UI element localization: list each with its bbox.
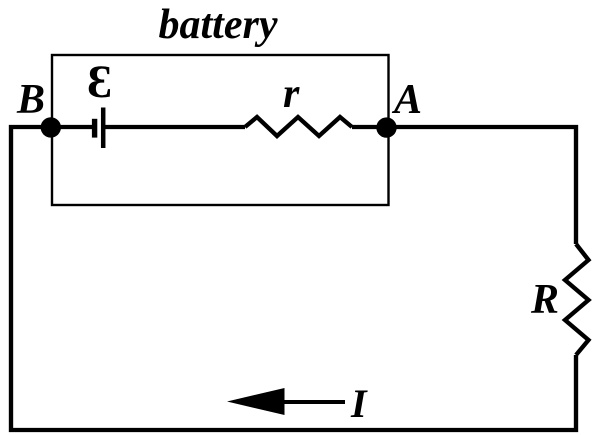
- current arrowhead: [227, 388, 285, 415]
- battery negative plate (short): [92, 119, 97, 138]
- svg-text:I: I: [350, 381, 368, 426]
- svg-text:B: B: [16, 77, 45, 123]
- node A dot: [376, 117, 396, 137]
- wire battery to resistor r: [103, 125, 245, 129]
- node B dot: [41, 117, 61, 137]
- battery positive plate (tall): [101, 108, 106, 149]
- resistor r zigzag: [245, 117, 352, 136]
- svg-text:A: A: [391, 77, 422, 123]
- svg-text:R: R: [530, 277, 559, 323]
- current arrow line: [283, 400, 345, 404]
- svg-text:battery: battery: [159, 2, 278, 48]
- svg-text:Ɛ: Ɛ: [87, 56, 112, 108]
- wire outer loop: left, bottom, right-lower: [11, 127, 576, 430]
- wire right-upper and top to node A: [352, 127, 576, 244]
- svg-text:r: r: [283, 71, 300, 117]
- resistor R zigzag: [565, 244, 589, 355]
- battery box: [52, 55, 389, 205]
